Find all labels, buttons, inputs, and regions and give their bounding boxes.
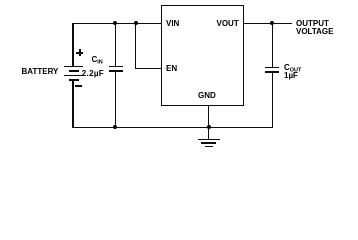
wire bottom rail — [72, 127, 273, 128]
wire COUT top branch — [272, 23, 273, 68]
label BATTERY — [22, 68, 59, 76]
label COUT — [284, 64, 301, 75]
label OUTPUT VOLTAGE — [296, 20, 333, 36]
node junction dot GND rail — [207, 125, 211, 129]
capacitor CIN — [109, 66, 123, 68]
op-amp U1 regulator box — [161, 5, 244, 106]
node junction dot VOUT — [270, 21, 274, 25]
wire VOUT output — [244, 23, 293, 24]
wire EN vertical branch — [135, 23, 136, 69]
wire CIN top branch — [115, 23, 116, 67]
label 1uF — [284, 72, 298, 80]
wire GND stem from box — [208, 106, 209, 140]
node junction dot EN top — [134, 21, 138, 25]
pin label VIN — [166, 20, 179, 28]
label 2.2uF — [82, 70, 104, 78]
battery plus label — [76, 52, 83, 54]
ground symbol — [198, 139, 220, 140]
node junction dot CIN top — [113, 21, 117, 25]
wire CIN bottom branch — [115, 72, 116, 128]
battery BT1 — [64, 66, 83, 67]
pin label EN — [166, 65, 177, 73]
wire battery top stem — [72, 23, 73, 67]
pin label VOUT — [217, 20, 239, 28]
battery minus label — [75, 85, 82, 87]
wire EN horizontal to pin — [135, 68, 162, 69]
wire COUT bottom branch — [272, 73, 273, 128]
wire top rail from battery to VIN — [72, 23, 162, 24]
node junction dot CIN bottom — [113, 125, 117, 129]
label CIN — [92, 56, 103, 67]
wire battery bottom stem — [72, 80, 73, 128]
pin label GND — [198, 92, 216, 100]
capacitor COUT — [265, 67, 279, 69]
